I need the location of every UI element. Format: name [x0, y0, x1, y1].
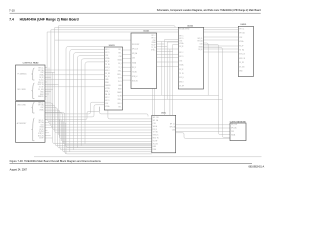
svg-text:Figure 7-48. HUE4040A Main Boa: Figure 7-48. HUE4040A Main Board Overall…	[10, 159, 102, 163]
svg-text:SYN_: SYN_	[118, 70, 122, 72]
svg-text:RX_IF: RX_IF	[179, 46, 183, 48]
svg-text:MOD_I: MOD_I	[105, 70, 110, 72]
svg-text:5V_RF: 5V_RF	[179, 86, 184, 88]
svg-text:DEMOD: DEMOD	[105, 85, 110, 87]
svg-text:SPI_CL: SPI_CL	[198, 38, 203, 40]
svg-text:3V_DI: 3V_DI	[105, 76, 110, 78]
svg-text:SYN_L: SYN_L	[179, 77, 184, 79]
svg-text:VCTRL: VCTRL	[105, 88, 110, 90]
svg-text:GND: GND	[40, 91, 43, 93]
svg-text:SYN_L: SYN_L	[105, 67, 110, 69]
svg-text:RX_IF: RX_IF	[39, 77, 43, 79]
svg-text:SPI_C: SPI_C	[105, 97, 109, 99]
svg-text:SPI_: SPI_	[118, 52, 121, 54]
svg-text:RX_IF: RX_IF	[239, 45, 243, 47]
svg-text:SPI_D: SPI_D	[179, 56, 183, 58]
svg-text:CSX: CSX	[41, 124, 44, 126]
svg-text:SPI_C: SPI_C	[179, 52, 183, 54]
svg-text:SYN_LK: SYN_LK	[132, 76, 138, 78]
svg-text:5V_RF: 5V_RF	[39, 87, 44, 89]
svg-text:6816962H01-A: 6816962H01-A	[249, 165, 265, 168]
svg-text:SPI_CL: SPI_CL	[38, 102, 43, 104]
svg-text:SPI_C: SPI_C	[105, 49, 109, 51]
svg-text:PC (SB9600): PC (SB9600)	[18, 74, 27, 76]
svg-text:RSSI: RSSI	[153, 149, 157, 151]
svg-text:SPI_D: SPI_D	[151, 37, 155, 39]
svg-text:RX_IF: RX_IF	[105, 61, 109, 63]
svg-text:RX FRONT: RX FRONT	[132, 44, 139, 46]
svg-text:3V_DIG: 3V_DIG	[153, 143, 159, 145]
svg-text:SPI_CLK: SPI_CLK	[132, 49, 138, 51]
svg-text:GND: GND	[105, 79, 108, 81]
svg-text:SYN_LK: SYN_LK	[239, 54, 245, 56]
svg-text:U0202: U0202	[187, 25, 194, 27]
svg-text:RX_IF: RX_IF	[153, 129, 157, 131]
svg-text:CSX: CSX	[153, 40, 156, 42]
svg-text:TX_IN: TX_IN	[179, 73, 183, 75]
svg-text:7-10: 7-10	[9, 8, 15, 12]
svg-text:MIC / SPKR: MIC / SPKR	[18, 89, 27, 91]
svg-text:5V_RF: 5V_RF	[153, 140, 158, 142]
svg-text:GND: GND	[239, 71, 242, 73]
svg-text:MOD_I: MOD_I	[179, 81, 184, 83]
svg-text:RX_IF: RX_IF	[179, 69, 183, 71]
svg-text:7.4: 7.4	[9, 18, 14, 22]
svg-text:TX_IN: TX_IN	[151, 47, 155, 49]
svg-text:TX_INJ: TX_INJ	[39, 79, 44, 81]
svg-text:CSX: CSX	[231, 131, 234, 133]
svg-text:RX_IF: RX_IF	[39, 129, 43, 131]
svg-text:RX_IF: RX_IF	[151, 45, 155, 47]
svg-text:CSX: CSX	[119, 56, 122, 58]
svg-text:GND: GND	[118, 85, 121, 87]
svg-text:VCTR: VCTR	[118, 96, 122, 98]
svg-text:SPI_CLK: SPI_CLK	[153, 117, 159, 119]
svg-text:CSX: CSX	[172, 129, 175, 131]
svg-text:PRE_: PRE_	[118, 99, 122, 101]
svg-text:MOD_: MOD_	[117, 74, 121, 76]
svg-text:CSX: CSX	[200, 44, 203, 46]
svg-text:3V_DIG: 3V_DIG	[239, 66, 245, 68]
svg-text:TX_INJ: TX_INJ	[153, 132, 158, 134]
svg-text:SPI_CL: SPI_CL	[170, 124, 175, 126]
svg-text:SPI_CL: SPI_CL	[38, 67, 43, 69]
svg-text:Schematics, Component Location: Schematics, Component Location Diagrams,…	[157, 9, 262, 12]
svg-text:August 24, 2007: August 24, 2007	[10, 169, 28, 172]
svg-text:RSSI: RSSI	[40, 94, 44, 96]
svg-text:SYN_LK: SYN_LK	[153, 135, 159, 137]
svg-text:CSX: CSX	[153, 123, 156, 125]
svg-text:CNTL: CNTL	[161, 113, 166, 115]
svg-text:TX_INJ: TX_INJ	[239, 50, 244, 52]
svg-text:5V_RF: 5V_RF	[239, 62, 244, 64]
svg-text:CONTROL HEAD: CONTROL HEAD	[23, 62, 39, 65]
svg-text:CSX: CSX	[105, 103, 108, 105]
svg-text:MOD_IN: MOD_IN	[153, 138, 159, 140]
svg-text:TX_INJ: TX_INJ	[132, 72, 137, 74]
svg-text:MOD_IN: MOD_IN	[132, 81, 138, 83]
svg-text:SYN_L: SYN_L	[151, 49, 156, 51]
svg-text:UNIV CONN: UNIV CONN	[17, 105, 25, 107]
svg-text:TX_INJ: TX_INJ	[39, 131, 44, 133]
svg-text:SPI_CL: SPI_CL	[239, 29, 244, 31]
svg-text:5V_RF: 5V_RF	[105, 73, 110, 75]
svg-text:CSX: CSX	[239, 37, 242, 39]
svg-text:CSX: CSX	[179, 41, 182, 43]
svg-text:U0301: U0301	[241, 24, 248, 26]
svg-text:SYN_LK: SYN_LK	[38, 82, 44, 84]
svg-text:RX_IF: RX_IF	[198, 49, 202, 51]
svg-text:SYN_LK: SYN_LK	[38, 133, 43, 135]
svg-text:3V_D: 3V_D	[118, 81, 122, 83]
svg-text:U0431: U0431	[109, 45, 116, 47]
svg-text:3V_DIG: 3V_DIG	[38, 89, 44, 91]
svg-text:CSX: CSX	[105, 55, 108, 57]
svg-text:SPI_: SPI_	[118, 106, 121, 108]
svg-text:MOD_IN: MOD_IN	[239, 58, 245, 60]
svg-text:SPI_D: SPI_D	[105, 100, 109, 102]
svg-text:CSX: CSX	[179, 60, 182, 62]
svg-text:MOD_IN: MOD_IN	[38, 135, 43, 137]
svg-text:RSSI: RSSI	[105, 82, 109, 84]
svg-text:CSX: CSX	[40, 107, 43, 109]
svg-text:OUTPUT NETWORK: OUTPUT NETWORK	[230, 121, 247, 123]
svg-text:SPI_C: SPI_C	[151, 35, 155, 37]
svg-text:5V_R: 5V_R	[118, 78, 122, 80]
svg-text:SPI_CL: SPI_CL	[39, 120, 44, 122]
svg-text:PRE_I: PRE_I	[105, 91, 110, 93]
svg-text:SPI_: SPI_	[118, 49, 121, 51]
svg-text:5V_RF: 5V_RF	[39, 138, 43, 140]
svg-text:HUE4040A (UHF Range 2) Main Bo: HUE4040A (UHF Range 2) Main Board	[20, 18, 79, 22]
svg-text:SPI_C: SPI_C	[179, 35, 183, 37]
svg-text:SPI_D: SPI_D	[105, 52, 109, 54]
svg-text:CSX: CSX	[40, 72, 43, 74]
svg-text:TX_IN: TX_IN	[105, 64, 109, 66]
svg-text:SPI_D: SPI_D	[179, 38, 183, 40]
svg-text:GND: GND	[153, 146, 156, 148]
svg-text:MOD_IN: MOD_IN	[38, 84, 44, 86]
svg-text:DEMOD: DEMOD	[38, 96, 43, 98]
svg-text:SPI_CLK: SPI_CLK	[231, 124, 237, 126]
svg-text:CSX: CSX	[132, 58, 135, 60]
svg-text:RX_IF: RX_IF	[132, 67, 136, 69]
svg-text:U0101: U0101	[143, 30, 150, 32]
